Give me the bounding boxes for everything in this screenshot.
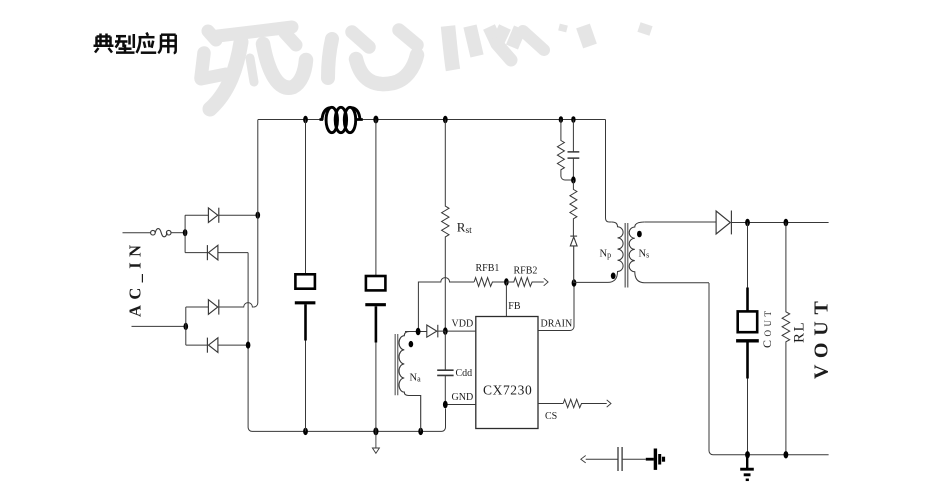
TEXTLABELS bbox=[126, 220, 833, 423]
capacitor Cdd bbox=[437, 331, 453, 404]
node dot rail x420.2 bbox=[418, 428, 423, 435]
wire AC bottom lead bbox=[132, 325, 186, 327]
ground arrow marker bbox=[372, 431, 379, 453]
svg-text:VDD: VDD bbox=[452, 319, 474, 330]
wire secondary return bbox=[709, 283, 829, 455]
svg-text:FB: FB bbox=[508, 301, 521, 312]
winding Np bbox=[574, 222, 623, 282]
diode D6 blocking bbox=[570, 236, 577, 283]
earth ground output bbox=[740, 455, 754, 480]
svg-text:Na: Na bbox=[410, 373, 422, 384]
node dot rail x305 bbox=[303, 428, 308, 435]
node dot top rail x444.8 bbox=[443, 116, 448, 123]
resistor RFB1 bbox=[474, 278, 506, 287]
hanzi ying bbox=[147, 33, 149, 36]
node dot snubber bbox=[571, 176, 576, 183]
chassis ground symbol bbox=[646, 449, 665, 470]
svg-text:RFB1: RFB1 bbox=[476, 263, 500, 274]
WATERMARK bbox=[201, 26, 651, 109]
node dot outbot2 bbox=[784, 451, 789, 458]
wire bridge upper bracket bbox=[184, 215, 186, 252]
svg-text:RL: RL bbox=[792, 321, 808, 343]
resistor Rst bbox=[442, 120, 449, 332]
Y-capacitor arrow bbox=[581, 456, 586, 463]
diode D1 bbox=[208, 208, 218, 223]
arrow RFB2 end bbox=[544, 278, 548, 286]
wire GND pin bbox=[445, 404, 476, 406]
wire AC top lead with fuse bbox=[123, 232, 151, 234]
wire FB vertical bbox=[505, 282, 507, 317]
node dot drain top bbox=[572, 279, 577, 286]
wire D2 branch bbox=[185, 252, 248, 254]
diode D2 bbox=[207, 245, 218, 260]
transformer core Na bbox=[395, 334, 398, 395]
diode D3 bbox=[208, 300, 218, 315]
capacitor Cout bbox=[736, 223, 759, 455]
snubber resistor Rsn2 bbox=[570, 180, 577, 236]
diode D4 bbox=[207, 338, 218, 353]
node dot GND bbox=[443, 401, 448, 408]
polarity dot Ns bbox=[637, 231, 642, 238]
svg-text:CS: CS bbox=[545, 411, 557, 422]
wire fuse to bridge bbox=[171, 232, 185, 234]
node dot out1 bbox=[745, 219, 750, 226]
node dot D4 junction bbox=[246, 342, 251, 349]
snubber resistor Rsn1 bbox=[557, 120, 573, 181]
TITLE bbox=[94, 33, 176, 54]
wire RFB feed horizontal with hop bbox=[418, 278, 474, 332]
svg-text:GND: GND bbox=[452, 392, 474, 403]
wire bottom primary rail bbox=[256, 409, 446, 432]
wire left vertical positive bbox=[254, 120, 258, 308]
wire output top bbox=[731, 222, 828, 224]
resistor RFB2 bbox=[506, 278, 543, 287]
svg-text:CX7230: CX7230 bbox=[483, 383, 532, 398]
winding Ns bbox=[629, 222, 709, 283]
svg-text:RFB2: RFB2 bbox=[514, 266, 538, 277]
inductor L1 bbox=[320, 107, 363, 132]
node dot outbot1 bbox=[745, 451, 750, 458]
wire D2 vertical down bbox=[248, 253, 255, 432]
wire D4 branch bbox=[186, 344, 248, 346]
wire CS pin bbox=[538, 403, 563, 405]
hanzi yong bbox=[161, 33, 176, 36]
wire Na top to VDD bbox=[405, 330, 445, 332]
svg-text:VOUT: VOUT bbox=[811, 294, 833, 379]
wire bridge lower bracket bbox=[185, 307, 187, 345]
snubber capacitor Csn bbox=[568, 120, 580, 181]
wire DRAIN bbox=[538, 283, 574, 331]
IC U1 box bbox=[476, 317, 538, 429]
diode D7 output bbox=[716, 211, 731, 235]
wire VDD pin bbox=[445, 330, 476, 332]
Y-capacitor CY bbox=[586, 447, 646, 471]
hanzi dian bbox=[99, 34, 102, 46]
wire D3 branch with hop bbox=[186, 303, 254, 307]
svg-text:Ns: Ns bbox=[639, 249, 650, 260]
node dot FB bbox=[504, 278, 509, 285]
wire Ns top to diode bbox=[644, 221, 716, 223]
capacitor C2 bbox=[365, 120, 386, 432]
wire D1 branch bbox=[185, 214, 258, 216]
arrow CS end bbox=[607, 400, 611, 407]
diode D5 aux bbox=[427, 325, 438, 338]
wire top rail right segment bbox=[361, 119, 606, 121]
node dot top rail x572.9 bbox=[571, 116, 575, 123]
polarity dot Np bbox=[611, 273, 616, 280]
node dot rail x375.4 bbox=[373, 428, 378, 436]
node dot D1 out bbox=[255, 212, 260, 219]
svg-text:AC_IN: AC_IN bbox=[126, 240, 145, 317]
capacitor C1 bbox=[295, 120, 316, 432]
wire Np top feed bbox=[606, 120, 612, 223]
svg-text:COUT: COUT bbox=[760, 307, 774, 348]
node dot AC top bbox=[183, 229, 188, 236]
wire top rail left segment bbox=[258, 119, 321, 121]
node dot VDD bbox=[443, 327, 448, 334]
node dot Na top bbox=[416, 328, 421, 335]
winding Na bbox=[399, 332, 421, 432]
node dot AC bottom bbox=[184, 323, 189, 330]
polarity dot Na bbox=[409, 341, 414, 347]
hanzi xing bbox=[116, 35, 126, 38]
node dot top rail x375.4 bbox=[373, 116, 378, 124]
node dot top rail x560.4 bbox=[559, 116, 563, 123]
resistor RL bbox=[782, 223, 790, 455]
node dot out2 bbox=[784, 219, 789, 226]
svg-text:Np: Np bbox=[600, 249, 612, 260]
node dot top rail x305 bbox=[303, 116, 308, 123]
fuse F1 bbox=[151, 229, 171, 237]
svg-text:Cdd: Cdd bbox=[456, 368, 473, 379]
transformer core T1 bbox=[625, 223, 628, 288]
svg-text:DRAIN: DRAIN bbox=[541, 319, 573, 330]
svg-text:Rst: Rst bbox=[457, 220, 472, 237]
resistor Rcs bbox=[563, 399, 607, 407]
